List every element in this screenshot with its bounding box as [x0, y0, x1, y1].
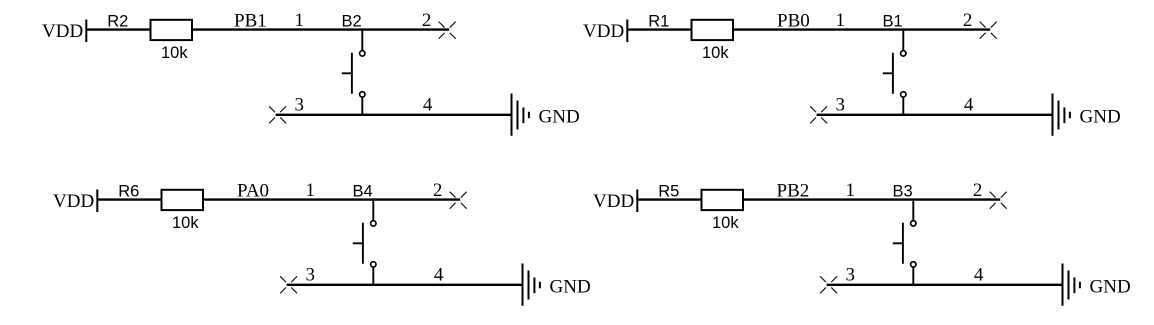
- svg-text:2: 2: [973, 180, 983, 201]
- svg-text:3: 3: [835, 95, 845, 116]
- VDD power symbol bar (circuit 4 (bottom-right)): [636, 190, 638, 213]
- svg-text:3: 3: [305, 265, 315, 286]
- wire VDD to resistor R6: [97, 198, 162, 200]
- wire button B4 bottom contact to ground rail: [372, 267, 374, 285]
- wire VDD to resistor R2: [86, 28, 151, 30]
- wire VDD to resistor R5: [637, 198, 702, 200]
- resistor R6 body: [162, 190, 204, 210]
- svg-text:R1: R1: [648, 13, 669, 31]
- svg-text:R6: R6: [118, 183, 139, 201]
- ground symbol (circuit 4 (bottom-right)): [1063, 264, 1080, 306]
- button B2 actuator: [342, 53, 352, 94]
- button B1 top contact: [901, 51, 906, 56]
- svg-text:PB1: PB1: [234, 10, 267, 31]
- svg-text:10k: 10k: [702, 44, 729, 62]
- resistor R2 body: [151, 20, 193, 40]
- svg-text:1: 1: [294, 10, 304, 31]
- svg-text:GND: GND: [539, 107, 580, 128]
- svg-text:1: 1: [845, 180, 855, 201]
- wire junction to button B4 top contact: [372, 200, 374, 221]
- svg-text:10k: 10k: [172, 214, 199, 232]
- svg-text:VDD: VDD: [593, 191, 634, 212]
- button B4 bottom contact: [371, 262, 376, 267]
- wire pin 3 to ground symbol (circuit 1 (top-left)): [276, 114, 512, 116]
- resistor R1 body: [692, 20, 734, 40]
- button B4 actuator: [353, 223, 363, 264]
- ground symbol (circuit 1 (top-left)): [512, 94, 529, 136]
- button B3 top contact: [911, 221, 916, 226]
- svg-text:GND: GND: [1080, 107, 1121, 128]
- wire junction to button B3 top contact: [912, 200, 914, 221]
- svg-text:GND: GND: [550, 277, 591, 298]
- button B1 actuator: [883, 53, 893, 94]
- svg-text:PA0: PA0: [237, 180, 269, 201]
- svg-text:B2: B2: [342, 13, 362, 31]
- svg-text:GND: GND: [1090, 277, 1131, 298]
- wire resistor R2 to pin 2 no-connect (net PB1): [192, 28, 449, 30]
- wire button B2 bottom contact to ground rail: [361, 97, 363, 115]
- no-connect X mark on pin 2 (circuit 2 (top-right)): [980, 22, 997, 39]
- svg-text:VDD: VDD: [583, 21, 624, 42]
- wire resistor R5 to pin 2 no-connect (net PB2): [743, 198, 1000, 200]
- wire junction to button B2 top contact: [361, 30, 363, 51]
- no-connect X mark on pin 3 (circuit 2 (top-right)): [810, 106, 827, 123]
- svg-text:B1: B1: [883, 13, 903, 31]
- button B3 actuator: [893, 223, 903, 264]
- VDD power symbol bar (circuit 1 (top-left)): [85, 20, 87, 43]
- ground symbol (circuit 3 (bottom-left)): [523, 264, 540, 306]
- no-connect X mark on pin 2 (circuit 4 (bottom-right)): [990, 192, 1007, 209]
- button B4 top contact: [371, 221, 376, 226]
- no-connect X mark on pin 3 (circuit 4 (bottom-right)): [820, 276, 837, 293]
- svg-text:4: 4: [423, 95, 433, 116]
- wire button B3 bottom contact to ground rail: [912, 267, 914, 285]
- svg-text:VDD: VDD: [42, 21, 83, 42]
- no-connect X mark on pin 3 (circuit 1 (top-left)): [269, 106, 286, 123]
- wire resistor R1 to pin 2 no-connect (net PB0): [733, 28, 990, 30]
- no-connect X mark on pin 3 (circuit 3 (bottom-left)): [280, 276, 297, 293]
- svg-text:1: 1: [305, 180, 315, 201]
- svg-text:2: 2: [963, 10, 973, 31]
- button B3 bottom contact: [911, 262, 916, 267]
- svg-text:2: 2: [433, 180, 443, 201]
- svg-text:R5: R5: [658, 183, 679, 201]
- resistor R5 body: [702, 190, 744, 210]
- wire button B1 bottom contact to ground rail: [902, 97, 904, 115]
- svg-text:10k: 10k: [712, 214, 739, 232]
- ground symbol (circuit 2 (top-right)): [1053, 94, 1070, 136]
- no-connect X mark on pin 2 (circuit 1 (top-left)): [439, 22, 456, 39]
- VDD power symbol bar (circuit 3 (bottom-left)): [96, 190, 98, 213]
- svg-text:1: 1: [835, 10, 845, 31]
- button B2 top contact: [360, 51, 365, 56]
- svg-text:3: 3: [845, 265, 855, 286]
- button B1 bottom contact: [901, 92, 906, 97]
- svg-text:4: 4: [434, 265, 444, 286]
- svg-text:2: 2: [422, 10, 432, 31]
- svg-text:B3: B3: [893, 183, 913, 201]
- svg-text:PB0: PB0: [777, 10, 810, 31]
- svg-text:3: 3: [294, 95, 304, 116]
- svg-text:VDD: VDD: [53, 191, 94, 212]
- svg-text:4: 4: [964, 95, 974, 116]
- svg-text:10k: 10k: [161, 44, 188, 62]
- svg-text:PB2: PB2: [777, 180, 810, 201]
- wire pin 3 to ground symbol (circuit 4 (bottom-right)): [827, 284, 1063, 286]
- VDD power symbol bar (circuit 2 (top-right)): [626, 20, 628, 43]
- svg-text:R2: R2: [107, 13, 128, 31]
- wire pin 3 to ground symbol (circuit 2 (top-right)): [817, 114, 1053, 116]
- wire resistor R6 to pin 2 no-connect (net PA0): [203, 198, 460, 200]
- button B2 bottom contact: [360, 92, 365, 97]
- wire pin 3 to ground symbol (circuit 3 (bottom-left)): [287, 284, 523, 286]
- svg-text:B4: B4: [353, 183, 373, 201]
- svg-text:4: 4: [974, 265, 984, 286]
- wire VDD to resistor R1: [627, 28, 692, 30]
- wire junction to button B1 top contact: [902, 30, 904, 51]
- no-connect X mark on pin 2 (circuit 3 (bottom-left)): [450, 192, 467, 209]
